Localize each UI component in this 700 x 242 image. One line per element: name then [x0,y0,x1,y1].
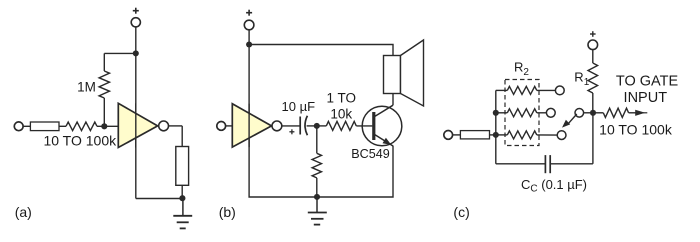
svg-text:10k: 10k [330,107,352,122]
svg-text:R1: R1 [574,70,589,89]
svg-text:1M: 1M [77,80,96,95]
svg-text:10 TO 100k: 10 TO 100k [43,133,117,149]
svg-text:(b): (b) [219,204,236,220]
svg-text:INPUT: INPUT [624,90,668,106]
svg-text:(c): (c) [453,204,469,220]
svg-text:10 µF: 10 µF [282,99,316,114]
svg-text:R2: R2 [514,60,529,79]
svg-text:10 TO 100k: 10 TO 100k [599,121,673,137]
svg-text:1 TO: 1 TO [327,90,357,105]
svg-text:TO GATE: TO GATE [616,74,679,90]
svg-text:(a): (a) [15,204,32,220]
svg-text:CC (0.1 µF): CC (0.1 µF) [521,177,587,195]
svg-text:BC549: BC549 [351,147,390,161]
